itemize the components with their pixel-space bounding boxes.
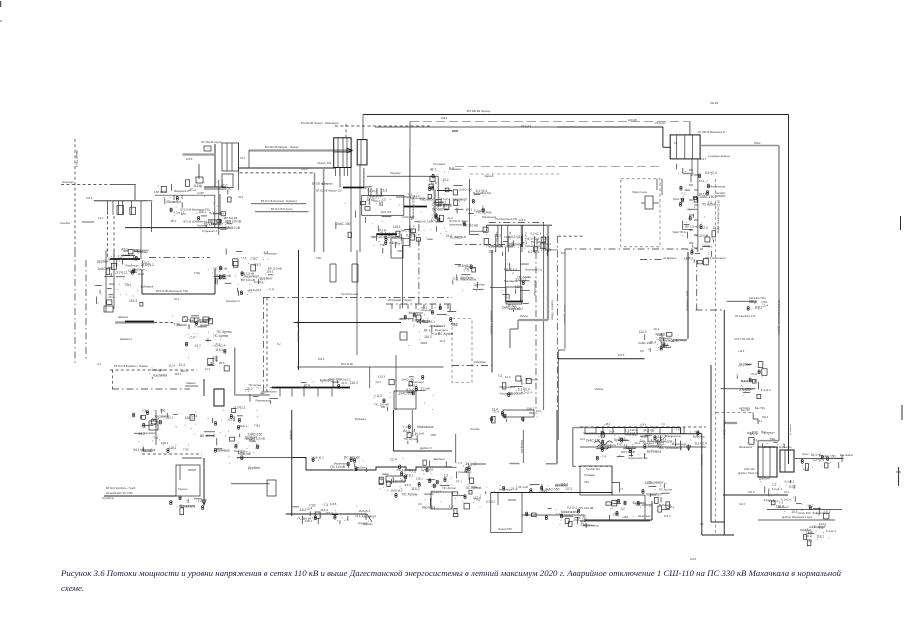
svg-text:ВЛ 330 кВ Махачкала - Дербент: ВЛ 330 кВ Махачкала - Дербент — [777, 300, 780, 336]
wire dash-dot boundary mid — [263, 297, 452, 299]
wire y509 tie — [767, 509, 842, 511]
wire main y492 — [491, 492, 612, 494]
svg-text:ПС 110 кВ: ПС 110 кВ — [374, 402, 388, 406]
svg-text:−7,4: −7,4 — [267, 287, 274, 291]
svg-text:6,1+j2,4: 6,1+j2,4 — [511, 235, 523, 239]
svg-text:ГЭС: ГЭС — [762, 300, 768, 304]
wire gray vertical W — [234, 348, 236, 396]
wire staircase NE — [753, 412, 758, 424]
wire dash-dot tie y249 — [565, 248, 697, 250]
svg-text:ПС Каспийск 2 АТ: ПС Каспийск 2 АТ — [735, 315, 756, 318]
svg-text:12,2: 12,2 — [205, 367, 211, 371]
svg-text:Чирюрт 330: Чирюрт 330 — [317, 161, 332, 165]
scan artifact right mid — [898, 467, 900, 486]
svg-text:ВЛ 110 кВ Чирюрт 110: ВЛ 110 кВ Чирюрт 110 — [316, 190, 342, 193]
wire feeder down 2 — [691, 159, 693, 176]
svg-text:Махачкала: Махачкала — [334, 462, 348, 466]
svg-text:341,8: 341,8 — [748, 490, 755, 494]
wire W edge — [455, 434, 457, 463]
svg-text:Чирюртская ГЭС: Чирюртская ГЭС — [628, 457, 648, 460]
wire bottom jog — [711, 521, 724, 523]
svg-text:118,1: 118,1 — [161, 441, 169, 445]
svg-text:на Дербент: на Дербент — [663, 256, 678, 260]
substation node W col lower — [227, 405, 265, 470]
bus B4 gray — [115, 321, 154, 323]
svg-text:Дербент: Дербент — [97, 259, 110, 263]
bus B3 — [110, 258, 140, 260]
substation node south labels — [170, 496, 204, 515]
svg-text:10,4: 10,4 — [303, 384, 310, 388]
svg-text:-15,2: -15,2 — [107, 295, 114, 299]
box W mid — [267, 480, 276, 496]
svg-text:34,2: 34,2 — [238, 195, 244, 199]
svg-text:3,2+j1,1: 3,2+j1,1 — [122, 253, 133, 257]
wire steps Leninkent — [640, 436, 660, 441]
substation node bottom bus boost — [600, 428, 706, 446]
svg-text:Леваши: Леваши — [186, 381, 196, 385]
svg-text:ВЛ 110 кВ: ВЛ 110 кВ — [200, 434, 216, 438]
wire long dashed x714 — [715, 179, 717, 535]
svg-text:112,4: 112,4 — [639, 330, 647, 334]
svg-text:Тарки 2 цепь: Тарки 2 цепь — [632, 191, 648, 194]
wire vertical x393 — [393, 410, 395, 451]
svg-text:ТЭЦ: ТЭЦ — [769, 437, 776, 441]
scan artifact tick — [0, 20, 2, 22]
svg-text:Махачкала: Махачкала — [602, 443, 616, 447]
svg-text:Махачкала 2 ц.: Махачкала 2 ц. — [525, 269, 542, 272]
svg-text:Махачкала: Махачкала — [461, 278, 477, 282]
box SE — [394, 391, 416, 409]
svg-text:330 кВ: 330 кВ — [710, 101, 718, 105]
svg-text:12,4: 12,4 — [504, 235, 510, 239]
svg-text:ВЛ 110 кВ: ВЛ 110 кВ — [227, 219, 241, 223]
box Gunib — [149, 421, 158, 430]
svg-text:112,8: 112,8 — [690, 558, 697, 561]
svg-text:10,4: 10,4 — [634, 441, 640, 445]
svg-text:2xАС-150: 2xАС-150 — [98, 267, 113, 271]
substation frame bottom box — [580, 466, 612, 495]
svg-text:112,0: 112,0 — [664, 514, 671, 518]
svg-text:−7,4: −7,4 — [463, 268, 469, 272]
wire dotted y412 — [716, 411, 753, 413]
svg-text:2xАС-150: 2xАС-150 — [700, 195, 715, 199]
bus B4 dark overlay — [125, 321, 154, 323]
wire dash mark — [431, 434, 436, 436]
svg-text:6,2: 6,2 — [277, 342, 281, 346]
svg-text:118,1: 118,1 — [266, 269, 274, 273]
svg-text:34,1+j8: 34,1+j8 — [811, 453, 822, 457]
wire dashed feeder 2 — [113, 216, 115, 259]
substation node E mid-left — [408, 305, 458, 346]
svg-text:Т-2: Т-2 — [498, 374, 503, 378]
wire drop b — [181, 195, 183, 199]
svg-text:1,2: 1,2 — [449, 504, 454, 508]
substation node below B5 — [366, 188, 387, 206]
wire dashed drop — [345, 124, 347, 140]
svg-text:Буйнакск: Буйнакск — [813, 511, 825, 515]
wire bottom y535 — [702, 534, 734, 536]
wire feeder — [105, 250, 107, 312]
svg-text:ТЭЦ: ТЭЦ — [471, 485, 478, 489]
substation frame Gotsatl — [176, 465, 200, 496]
svg-text:Каспийск: Каспийск — [583, 431, 596, 435]
svg-text:ВЛ 110 кВ: ВЛ 110 кВ — [241, 278, 255, 282]
svg-text:ПС 110 кВ: ПС 110 кВ — [579, 506, 594, 510]
svg-text:331,4: 331,4 — [762, 416, 769, 419]
svg-text:-15,2: -15,2 — [245, 387, 253, 391]
arrow stem — [688, 444, 690, 450]
svg-text:10,2: 10,2 — [536, 409, 542, 413]
bus B11 bottom thin wire — [286, 513, 367, 515]
svg-text:Махачкала 1Т: Махачкала 1Т — [174, 190, 190, 193]
svg-text:ВЛ 110 Изберг: ВЛ 110 Изберг — [533, 280, 536, 296]
svg-text:по ВЛ: по ВЛ — [197, 192, 204, 195]
svg-text:2xАС-150: 2xАС-150 — [402, 215, 415, 219]
svg-text:Каспийск: Каспийск — [715, 192, 726, 195]
wire gray vertical drop 2 — [323, 168, 325, 252]
wire dashed vertical 2 — [266, 298, 268, 396]
svg-text:110,3: 110,3 — [739, 503, 746, 506]
load box — [117, 206, 124, 215]
svg-text:10,4: 10,4 — [306, 507, 312, 511]
svg-text:Изберг: Изберг — [520, 314, 528, 318]
bus B1 west thin — [94, 200, 148, 202]
svg-text:112,4: 112,4 — [749, 300, 757, 304]
svg-text:Чирюрт ГЭС-1: Чирюрт ГЭС-1 — [75, 150, 79, 168]
wire feeder 2 — [151, 202, 153, 232]
svg-text:Махачкала - Каспийск: Махачкала - Каспийск — [490, 310, 493, 335]
substation node right leader comps — [801, 453, 854, 470]
svg-text:Буйнакск: Буйнакск — [659, 503, 672, 507]
substation box Makhachkala-330 main — [758, 447, 777, 477]
svg-text:6,1+j2,4: 6,1+j2,4 — [527, 237, 539, 241]
svg-text:8,8: 8,8 — [640, 349, 644, 353]
wire main stepped tie y467 — [292, 458, 452, 471]
wire dash-dot x557 — [556, 236, 558, 410]
svg-text:Дербент Махачкала 2 цепь: Дербент Махачкала 2 цепь — [782, 516, 813, 519]
substation node W mid — [452, 264, 486, 291]
svg-text:8,3-j2,2: 8,3-j2,2 — [761, 388, 771, 392]
svg-text:ГЭС: ГЭС — [584, 481, 589, 484]
substation frame dashed W edge — [452, 319, 472, 383]
svg-text:Буйнакск: Буйнакск — [355, 417, 367, 421]
substation node E col — [185, 330, 232, 371]
svg-text:−7,4: −7,4 — [196, 500, 202, 504]
feeders below B8 — [498, 225, 523, 247]
box — [400, 332, 407, 340]
wire dash-dot x697 — [696, 260, 698, 310]
svg-text:115,3: 115,3 — [686, 256, 693, 260]
wire y515 — [522, 514, 585, 516]
wire drop B11 — [365, 514, 367, 520]
svg-text:ГЭС: ГЭС — [316, 256, 322, 260]
wire long vertical x357 — [356, 250, 358, 355]
svg-text:ПС Артем: ПС Артем — [659, 487, 672, 491]
svg-text:АТ-1: АТ-1 — [707, 245, 713, 249]
svg-text:34,1+j8: 34,1+j8 — [421, 386, 431, 390]
svg-text:110,2: 110,2 — [138, 272, 145, 276]
svg-text:Т-1: Т-1 — [403, 425, 408, 429]
wire y458 leader — [795, 458, 842, 460]
svg-text:-15,2: -15,2 — [299, 508, 307, 512]
labels y515 — [526, 505, 594, 519]
svg-text:10,4: 10,4 — [649, 341, 656, 345]
svg-text:118,1: 118,1 — [405, 474, 413, 478]
wire leader 2 — [255, 211, 309, 213]
wire dash-dot boundary west — [74, 250, 76, 365]
wire tie y451 — [394, 450, 453, 452]
svg-text:6,1+j2,4: 6,1+j2,4 — [695, 442, 707, 446]
substation node below B6 — [370, 225, 413, 253]
svg-text:115,9: 115,9 — [186, 157, 193, 161]
wire stub — [641, 202, 645, 204]
feeder dashes below box — [336, 168, 348, 176]
wire riser x645 — [644, 495, 646, 521]
svg-text:Махачкала: Махачкала — [561, 510, 578, 514]
svg-text:112,7: 112,7 — [700, 157, 707, 161]
svg-text:ВЛ 110 кВ: ВЛ 110 кВ — [216, 274, 231, 278]
substation node below tie — [379, 468, 423, 497]
svg-text:21,6: 21,6 — [381, 189, 387, 193]
svg-text:Кизилюрт: Кизилюрт — [712, 256, 727, 260]
svg-text:АТ-1: АТ-1 — [430, 168, 437, 172]
substation node on tie — [398, 311, 435, 325]
svg-text:Т-2: Т-2 — [380, 243, 385, 247]
svg-text:16,8+j5,2: 16,8+j5,2 — [249, 288, 262, 292]
wire vertical x702 — [701, 434, 703, 535]
wire trunk continues x402 — [401, 245, 403, 308]
generator bracket G1 — [316, 256, 336, 282]
svg-text:6,1+j2,4: 6,1+j2,4 — [705, 171, 717, 175]
svg-text:+28,4: +28,4 — [622, 516, 629, 519]
bus dashed bottom mid — [580, 423, 706, 427]
svg-text:Гельбах: Гельбах — [470, 427, 480, 431]
svg-text:115,3: 115,3 — [320, 508, 328, 512]
svg-text:3,2+j1,1: 3,2+j1,1 — [515, 277, 527, 281]
wire dashed ext — [154, 322, 175, 324]
svg-text:Дербент: Дербент — [555, 483, 567, 487]
svg-text:12,4: 12,4 — [180, 212, 186, 216]
svg-text:Гергебиль: Гергебиль — [102, 497, 114, 500]
wire west feeder — [104, 495, 176, 497]
box — [104, 306, 113, 312]
wire dashed drop — [112, 370, 114, 389]
scan artifact mark — [0, 1, 2, 7]
svg-text:118,1: 118,1 — [305, 519, 313, 523]
svg-text:110,2: 110,2 — [424, 335, 432, 339]
svg-text:АТ-1: АТ-1 — [240, 157, 246, 160]
svg-text:отходящие фидеры: отходящие фидеры — [708, 155, 730, 158]
svg-text:ГЭС: ГЭС — [160, 408, 166, 412]
wire gray drop — [219, 194, 221, 215]
arrowhead gray bus — [347, 148, 352, 152]
svg-text:Т-1: Т-1 — [681, 192, 686, 196]
svg-text:АТ-1: АТ-1 — [121, 248, 128, 252]
svg-text:ВЛ 110 кВ: ВЛ 110 кВ — [685, 224, 698, 228]
svg-text:-15,2: -15,2 — [194, 344, 201, 348]
wire W short y484 — [231, 483, 270, 485]
svg-text:ПС Артем: ПС Артем — [207, 222, 221, 226]
svg-text:ВЛ 330 кВ Моздок - Чирюрт: ВЛ 330 кВ Моздок - Чирюрт — [265, 145, 300, 149]
svg-text:21,6: 21,6 — [431, 484, 437, 488]
svg-text:1,2: 1,2 — [624, 443, 628, 447]
svg-text:6,1+j2,4: 6,1+j2,4 — [528, 250, 539, 254]
svg-text:10,4: 10,4 — [653, 327, 659, 331]
svg-text:2 ВЛ 110 кВ: 2 ВЛ 110 кВ — [154, 191, 167, 194]
labels above y492 wire — [494, 483, 573, 494]
wire dashed feeder row — [110, 369, 197, 371]
svg-text:Кизилюрт: Кизилюрт — [647, 493, 662, 497]
svg-text:115,0: 115,0 — [519, 218, 526, 222]
substation box U2 Chiryurt-330 — [334, 138, 351, 168]
wire drop — [369, 367, 371, 388]
svg-text:Дербент: Дербент — [474, 283, 486, 287]
svg-text:Махачкала: Махачкала — [417, 425, 434, 429]
svg-text:34,1+j8: 34,1+j8 — [643, 428, 654, 432]
svg-text:-15,2: -15,2 — [806, 503, 813, 507]
bus B10 low — [272, 387, 350, 389]
svg-text:Каспийск: Каспийск — [143, 431, 156, 435]
gray trunk path mid — [510, 225, 548, 348]
substation node TEC — [208, 266, 232, 284]
bus B5 mid busbar — [343, 187, 366, 189]
wire trunk mid vertical x410 upper — [409, 122, 411, 151]
svg-text:Гуниб: Гуниб — [152, 417, 159, 421]
substation node W edge comps — [456, 461, 477, 485]
wire gray drop to station box — [689, 122, 691, 136]
wire feeder from box — [350, 168, 352, 253]
svg-text:Буйнакск: Буйнакск — [216, 449, 230, 453]
svg-text:12,4: 12,4 — [671, 339, 678, 343]
svg-text:21,6: 21,6 — [219, 361, 225, 365]
svg-text:36,2: 36,2 — [174, 297, 180, 301]
svg-text:АТ-1: АТ-1 — [784, 490, 790, 494]
svg-text:16,8+j5,2: 16,8+j5,2 — [358, 509, 370, 513]
svg-text:Гельбах 110: Гельбах 110 — [586, 468, 601, 471]
svg-text:-15,2: -15,2 — [138, 432, 146, 436]
svg-text:Цудахар: Цудахар — [358, 522, 368, 525]
svg-text:16,8+j5,2: 16,8+j5,2 — [457, 264, 471, 268]
wire dark long west tie — [239, 167, 336, 169]
svg-text:−7,4: −7,4 — [240, 256, 246, 260]
svg-text:118,1: 118,1 — [169, 446, 177, 450]
svg-text:24,6+j8,1: 24,6+j8,1 — [655, 121, 666, 125]
svg-text:112,4: 112,4 — [398, 317, 405, 321]
svg-text:Гуниб 110: Гуниб 110 — [239, 453, 251, 456]
svg-text:РП А-2: РП А-2 — [508, 305, 516, 308]
wire y521 — [580, 520, 650, 522]
wire stub — [653, 202, 659, 204]
wire gray dash 2 — [510, 463, 520, 465]
svg-text:118,1: 118,1 — [198, 210, 206, 214]
svg-text:ПС 110 кВ: ПС 110 кВ — [432, 207, 449, 211]
svg-text:Чирюрт - Гергебиль: Чирюрт - Гергебиль — [297, 320, 300, 343]
svg-text:ГЭС: ГЭС — [183, 447, 189, 451]
wire continues x558 — [557, 350, 559, 440]
svg-text:115,3: 115,3 — [129, 299, 137, 303]
svg-text:3,2+j1,1: 3,2+j1,1 — [392, 240, 403, 244]
substation node BR boost — [759, 476, 796, 504]
wire drop x396 — [395, 355, 397, 410]
wire dashed leader — [335, 125, 430, 127]
svg-text:ВЛ 110 кВ Кизилюрт - Буйнакск: ВЛ 110 кВ Кизилюрт - Буйнакск — [261, 200, 298, 203]
svg-text:-15,2: -15,2 — [643, 481, 651, 485]
bus gray Makhachkala-330 — [249, 149, 352, 151]
svg-text:-15,2: -15,2 — [441, 178, 449, 182]
wire gray stub — [198, 164, 200, 179]
svg-text:12,4: 12,4 — [439, 339, 445, 343]
svg-text:-4,2: -4,2 — [808, 540, 813, 543]
wire tie east segment — [557, 126, 663, 128]
svg-text:12,7: 12,7 — [322, 182, 328, 186]
arrow head — [687, 446, 691, 451]
svg-text:+12,6: +12,6 — [738, 350, 745, 353]
substation frame mid (Tarnair) — [362, 196, 404, 216]
svg-text:10,4: 10,4 — [375, 380, 381, 384]
wire vertical — [155, 410, 157, 445]
svg-text:Т-2: Т-2 — [707, 201, 712, 205]
wire feeder to south bus — [140, 201, 142, 259]
svg-text:Т-1: Т-1 — [374, 394, 379, 398]
svg-text:+29,4: +29,4 — [640, 424, 647, 427]
generator bracket G2 — [352, 264, 358, 282]
svg-text:Махачкала: Махачкала — [180, 504, 196, 508]
substation node E mid taps — [638, 327, 672, 352]
wire vertical x412 — [411, 410, 413, 432]
svg-text:110,2: 110,2 — [166, 415, 173, 419]
svg-text:ВЛ 330 кВ на Дербент 1ц: ВЛ 330 кВ на Дербент 1ц — [764, 446, 792, 449]
svg-text:112,4: 112,4 — [168, 363, 175, 367]
wire dash-dot vertical — [263, 298, 265, 396]
svg-text:113,8: 113,8 — [330, 502, 337, 506]
substation node Gunib group — [133, 408, 231, 452]
svg-text:ПС Артем: ПС Артем — [402, 493, 418, 497]
wire vertical — [238, 143, 240, 190]
svg-text:Тарнаир: Тарнаир — [390, 171, 401, 175]
bus gray E vertical — [434, 190, 436, 218]
svg-text:Кизилюрт: Кизилюрт — [435, 328, 449, 332]
svg-text:+15,3: +15,3 — [604, 423, 611, 426]
substation node bottom mid comps — [583, 427, 697, 447]
svg-text:Ирганай: Ирганай — [289, 430, 292, 440]
svg-text:6,1+j2,4: 6,1+j2,4 — [781, 497, 791, 501]
svg-text:3,2+j1,1: 3,2+j1,1 — [764, 498, 775, 502]
tick column — [680, 441, 682, 451]
svg-text:−2,4: −2,4 — [96, 362, 102, 366]
wire y495 west — [612, 494, 645, 496]
svg-text:Буйнакск: Буйнакск — [450, 167, 463, 171]
svg-text:т.2: т.2 — [620, 487, 624, 491]
labels around B11 — [292, 503, 376, 524]
svg-text:330,2: 330,2 — [754, 141, 761, 145]
svg-text:3,2+j1,1: 3,2+j1,1 — [424, 319, 435, 323]
svg-text:36,4+j12: 36,4+j12 — [521, 124, 532, 128]
svg-text:2xАС-150: 2xАС-150 — [328, 377, 341, 381]
wire — [611, 489, 613, 495]
svg-text:кВ: кВ — [700, 247, 703, 251]
svg-text:1,2: 1,2 — [444, 473, 449, 477]
substation node E lower — [418, 457, 456, 509]
substation node central boost — [336, 192, 462, 246]
svg-text:Буйнакск: Буйнакск — [693, 434, 705, 438]
wire jog at x410 bottom — [402, 244, 409, 246]
wire dash-dot boundary west 2 — [85, 260, 87, 361]
wire step down — [612, 466, 620, 492]
box below B7 — [391, 238, 403, 258]
wire riser — [214, 269, 216, 294]
wire vertical x711 — [710, 365, 712, 522]
wire y447 — [580, 446, 706, 448]
